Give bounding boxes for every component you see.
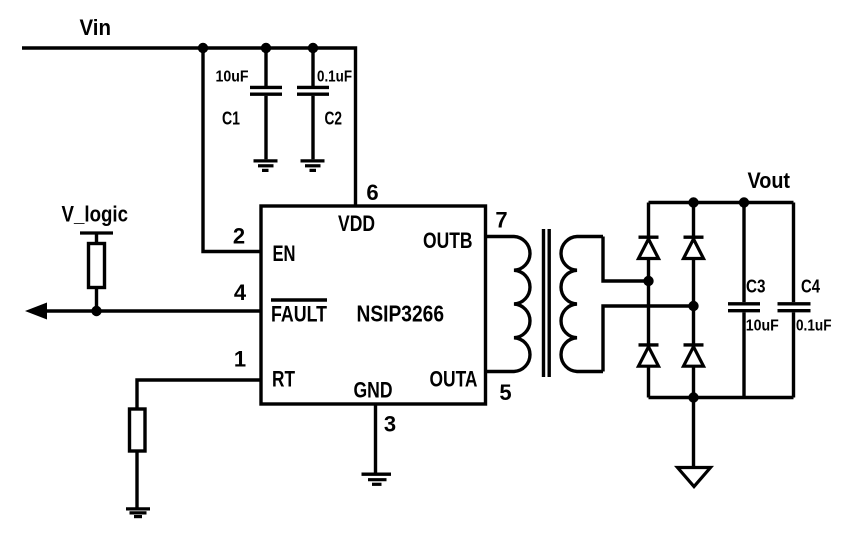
svg-text:VDD: VDD: [338, 211, 375, 236]
svg-text:FAULT: FAULT: [271, 302, 327, 327]
svg-text:C3: C3: [746, 277, 766, 297]
svg-text:5: 5: [499, 380, 511, 405]
svg-text:0.1uF: 0.1uF: [796, 318, 832, 335]
svg-text:NSIP3266: NSIP3266: [357, 301, 445, 327]
svg-text:OUTB: OUTB: [423, 228, 473, 253]
svg-text:Vout: Vout: [748, 168, 791, 193]
svg-text:10uF: 10uF: [746, 318, 779, 335]
svg-text:OUTA: OUTA: [430, 367, 478, 392]
svg-text:7: 7: [495, 208, 507, 233]
svg-text:0.1uF: 0.1uF: [317, 69, 352, 86]
svg-text:10uF: 10uF: [216, 69, 249, 86]
svg-text:4: 4: [234, 280, 247, 305]
svg-text:C2: C2: [325, 109, 343, 129]
svg-text:V_logic: V_logic: [62, 202, 129, 227]
svg-text:RT: RT: [272, 367, 295, 392]
svg-text:1: 1: [234, 347, 246, 372]
svg-text:GND: GND: [354, 378, 393, 403]
svg-text:C4: C4: [801, 277, 820, 297]
svg-text:3: 3: [384, 412, 396, 437]
svg-text:EN: EN: [273, 241, 296, 266]
svg-text:C1: C1: [222, 109, 240, 129]
svg-text:2: 2: [233, 224, 245, 249]
svg-text:Vin: Vin: [80, 15, 112, 40]
svg-text:6: 6: [366, 180, 378, 205]
